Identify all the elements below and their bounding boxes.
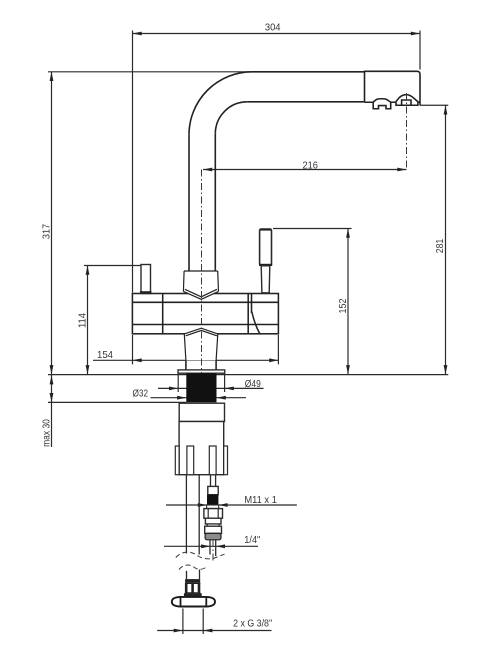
svg-text:Ø49: Ø49 <box>245 379 261 390</box>
dim 152 ext top <box>273 228 352 230</box>
qc hex facet lines <box>208 509 218 519</box>
spout inner bend arc <box>215 102 247 134</box>
mounting nut <box>179 403 224 421</box>
spout head bottom edge segments <box>365 101 421 103</box>
right cap edge <box>251 294 253 314</box>
bracket prong inner right <box>209 446 216 475</box>
right tube upper right line <box>215 475 217 487</box>
qc connector box <box>208 486 218 494</box>
quarter tube below right line <box>215 540 217 556</box>
right aerator dome <box>395 95 418 103</box>
lever joint diagonal <box>252 312 260 334</box>
svg-text:152: 152 <box>338 298 349 313</box>
arrow M11 left <box>198 503 207 507</box>
left aerator <box>373 99 391 109</box>
svg-text:114: 114 <box>77 313 88 328</box>
body cylinder <box>132 294 278 334</box>
dim dia49 ext left <box>177 374 179 392</box>
right handle junction <box>259 264 272 266</box>
bracket prong inner left <box>187 446 194 475</box>
svg-text:Ø32: Ø32 <box>133 389 149 400</box>
arrow 154 left <box>133 358 142 362</box>
break wavy line 2 <box>179 565 208 569</box>
left hose lower left line <box>186 571 188 579</box>
dim 152 line <box>347 229 349 375</box>
dim dia49 line <box>158 387 264 389</box>
arrow dia32 left <box>177 396 186 400</box>
arrow 317 top <box>50 72 54 81</box>
arrow 317 bottom <box>50 365 54 374</box>
deck bottom line <box>48 401 186 403</box>
shank right line <box>215 360 217 370</box>
mounting seal (black block) <box>186 373 216 402</box>
deck top line <box>48 374 448 376</box>
arrow 152 bottom <box>346 365 350 374</box>
g38 ribbed section <box>185 583 200 593</box>
dim 154 ext right <box>277 335 279 364</box>
arrow 216 left <box>203 168 212 172</box>
g38 rib bars <box>186 583 199 593</box>
dim max30 line <box>51 375 53 448</box>
right handle upper <box>260 229 272 265</box>
right aerator bottom <box>396 100 418 105</box>
quarter tube below left line <box>209 540 211 555</box>
bracket box <box>179 422 224 475</box>
lower cone <box>184 328 218 360</box>
dim 154 line <box>93 359 278 361</box>
arrow 304 left <box>133 32 142 36</box>
svg-text:2 x G 3/8": 2 x G 3/8" <box>233 619 272 630</box>
dim 304 ext left <box>132 31 134 293</box>
svg-text:304: 304 <box>265 23 281 34</box>
body divider right <box>247 294 249 334</box>
dim 281 line <box>445 105 447 374</box>
break wavy line 1 <box>176 552 225 559</box>
g38 rib top bottom edges <box>185 583 200 592</box>
spout tube bottom line <box>247 101 364 103</box>
svg-text:154: 154 <box>97 350 113 361</box>
body divider left <box>162 294 164 334</box>
dimension texts <box>41 23 446 630</box>
bracket prong outer right <box>224 446 228 475</box>
right handle top edge <box>260 229 271 231</box>
shank left line <box>185 360 187 370</box>
svg-text:317: 317 <box>41 224 52 239</box>
bracket prong outer left <box>175 446 179 475</box>
spout outer bend arc <box>189 72 252 135</box>
left hose lower right line <box>199 570 201 580</box>
arrow 152 top <box>346 229 350 238</box>
g38 hex nut <box>172 597 215 607</box>
right tube upper left line <box>210 475 212 487</box>
dim G38 line <box>157 630 271 632</box>
arrow 281 bottom <box>444 365 448 374</box>
arrow dia49 right <box>225 387 234 391</box>
dim 304 line <box>133 33 421 35</box>
dim quarter line <box>164 545 258 547</box>
arrow G38 right <box>203 629 212 633</box>
arrow 114 bottom <box>86 365 90 374</box>
qc gray band <box>205 533 221 539</box>
dim 317 ext top <box>48 71 252 73</box>
arrow dia49 left <box>169 387 178 391</box>
dim dia32 line <box>151 397 247 399</box>
arrow 114 top <box>86 266 90 275</box>
arrow G38 left <box>174 629 183 633</box>
right handle stem <box>261 266 270 293</box>
svg-text:1/4": 1/4" <box>244 535 260 546</box>
dim 154 ext left <box>132 335 134 364</box>
arrow quarter right <box>216 544 225 548</box>
qc thread black band M11 <box>207 495 218 505</box>
down tube right line <box>214 134 216 271</box>
left hose upper left line <box>185 475 187 554</box>
body inner line lower <box>132 324 278 326</box>
lower cone inner V <box>186 330 217 335</box>
svg-text:max 30: max 30 <box>41 419 52 447</box>
spout head <box>365 71 421 105</box>
arrow 216 right <box>397 168 406 172</box>
arrow M11 right <box>218 503 227 507</box>
left handle base <box>140 291 152 293</box>
quarter tube axis center line <box>212 540 214 562</box>
svg-text:M11 x 1: M11 x 1 <box>244 495 277 506</box>
arrow 154 right <box>269 358 278 362</box>
qc hex <box>204 509 223 519</box>
dim M11 line <box>166 504 297 506</box>
arrow 304 right <box>411 32 420 36</box>
dim 114 ext top <box>84 265 141 267</box>
g38 collar top <box>185 579 200 583</box>
dim 304 ext right <box>419 31 421 70</box>
arrow dia32 right <box>217 396 226 400</box>
left small handle <box>141 265 151 294</box>
dim dia49 ext right <box>224 374 226 392</box>
dim G38 ext left <box>182 609 184 635</box>
g38 collar bottom <box>184 593 202 597</box>
dim 114 line <box>87 266 89 375</box>
arrow 281 top <box>444 105 448 114</box>
dim 216 line <box>203 169 407 171</box>
spout tube top line <box>252 71 365 73</box>
left hose upper right line <box>198 475 200 555</box>
base flange <box>178 370 225 373</box>
aerator axis center line <box>406 93 408 170</box>
body inner line upper <box>132 301 278 303</box>
g38 hex facets <box>181 597 207 606</box>
qc mid box <box>205 518 221 524</box>
upper cone inner V <box>185 289 217 297</box>
arrowheads <box>50 32 448 633</box>
dim 281 ext top <box>420 104 448 106</box>
dim G38 ext right <box>202 609 204 635</box>
dim 317 line <box>51 72 53 375</box>
faucet axis center line <box>201 170 203 374</box>
arrow max30 down <box>50 393 54 402</box>
svg-text:281: 281 <box>435 239 446 254</box>
qc neck under thread <box>207 505 219 508</box>
arrow max30 up <box>50 375 54 384</box>
down tube left line <box>188 135 190 271</box>
qc collet <box>205 526 222 533</box>
arrow quarter left <box>201 544 210 548</box>
svg-text:216: 216 <box>303 160 319 171</box>
upper cone <box>183 271 218 299</box>
center lines (dash-dot) <box>202 93 407 562</box>
qc neck <box>207 524 219 526</box>
